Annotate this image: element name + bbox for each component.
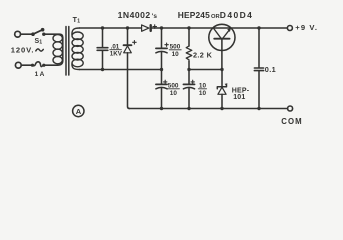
label 1N4002's: [118, 10, 158, 20]
junction dot top rail C2: [160, 26, 163, 29]
svg-text:10: 10: [199, 90, 207, 97]
capacitor C3 500/10: [156, 70, 167, 109]
diode D2 1N4002 (in top rail): [142, 25, 151, 31]
terminal +9V: [287, 26, 292, 31]
terminal COM: [288, 106, 293, 111]
wire: fuse to transformer primary bottom: [44, 61, 63, 66]
capacitor C4 10/10: [183, 70, 194, 109]
svg-text:10: 10: [172, 51, 180, 58]
junction dot bottom zener: [220, 107, 223, 110]
junction dot bottom C3: [160, 107, 163, 110]
diode D1 1N4002 (vertical): [124, 28, 132, 109]
junction dot top rail C1: [101, 26, 104, 29]
wire: mid line B (resistor bottom to base node): [189, 69, 222, 71]
label HEP-101: [232, 87, 250, 101]
svg-text:A: A: [76, 107, 82, 116]
junction dot mid base zener: [220, 68, 223, 71]
svg-text:COM: COM: [281, 117, 302, 126]
label HEP245 or D40D4: [178, 10, 253, 20]
svg-text:2.2 K: 2.2 K: [193, 50, 213, 59]
svg-text:1KV: 1KV: [110, 51, 123, 58]
AC waveform symbol: [36, 49, 44, 51]
wire: mid line A (secondary bottom to C2/C3): [80, 69, 162, 71]
svg-text:D40D4: D40D4: [220, 10, 253, 20]
transistor Q1 HEP245/D40D4: [209, 24, 235, 69]
junction dot top rail D1: [126, 26, 129, 29]
label 500/10 (C2): [169, 44, 181, 58]
figure label A circled: [73, 105, 84, 116]
svg-text:0.1: 0.1: [265, 65, 276, 74]
terminal: AC plug top: [15, 31, 21, 37]
plus mark at D1: [133, 41, 137, 45]
svg-text:HEP245: HEP245: [178, 10, 210, 20]
terminal: AC plug bottom: [15, 62, 21, 68]
junction dot mid R1 C4: [187, 68, 190, 71]
wire: bottom rail: [130, 108, 288, 110]
svg-text:1: 1: [39, 39, 42, 45]
wire: switch to transformer primary top: [44, 34, 63, 60]
svg-text:'s: 's: [152, 13, 158, 20]
wire: plug bottom to fuse: [22, 64, 33, 66]
zener diode D3 HEP-101: [217, 70, 227, 109]
label T1: [73, 17, 81, 24]
junction dot bottom C4: [187, 107, 190, 110]
junction dot bottom C5: [257, 107, 260, 110]
plus mark at C4: [191, 80, 194, 83]
svg-text:1N4002: 1N4002: [118, 10, 151, 20]
transformer T1 primary winding: [53, 35, 62, 64]
wire: top rail right segment (D2 to +9V terminal): [152, 27, 287, 29]
junction dot top rail R1: [187, 26, 190, 29]
svg-text:+9 V.: +9 V.: [295, 23, 318, 32]
switch S1: [31, 28, 45, 36]
svg-text:1A: 1A: [35, 71, 46, 78]
capacitor C1 .01/1KV: [97, 28, 108, 70]
svg-text:120V.: 120V.: [11, 45, 35, 54]
svg-text:1: 1: [77, 19, 80, 25]
fuse 1A: [31, 62, 46, 67]
label .01/1KV: [110, 44, 123, 58]
wire: plug top to switch pole: [21, 33, 33, 35]
plus mark at C2: [165, 43, 168, 46]
wire: top rail left segment (secondary top to D2): [80, 27, 142, 29]
transformer T1 core: [66, 27, 69, 76]
svg-text:101: 101: [233, 94, 245, 101]
resistor R1 2.2K: [186, 28, 192, 70]
plus mark at C3: [164, 80, 167, 83]
label 10/10: [198, 83, 206, 97]
junction dot mid C1: [101, 68, 104, 71]
capacitor C2 500/10: [156, 28, 167, 70]
transformer T1 secondary winding: [72, 28, 83, 70]
plus mark at D2: [153, 25, 157, 29]
label 500/10 (C3): [167, 83, 179, 97]
junction dot top rail C5: [257, 26, 260, 29]
capacitor C5 0.1: [254, 28, 263, 109]
label S1: [35, 38, 43, 45]
junction dot mid C2 C3: [160, 68, 163, 71]
svg-text:10: 10: [170, 90, 178, 97]
